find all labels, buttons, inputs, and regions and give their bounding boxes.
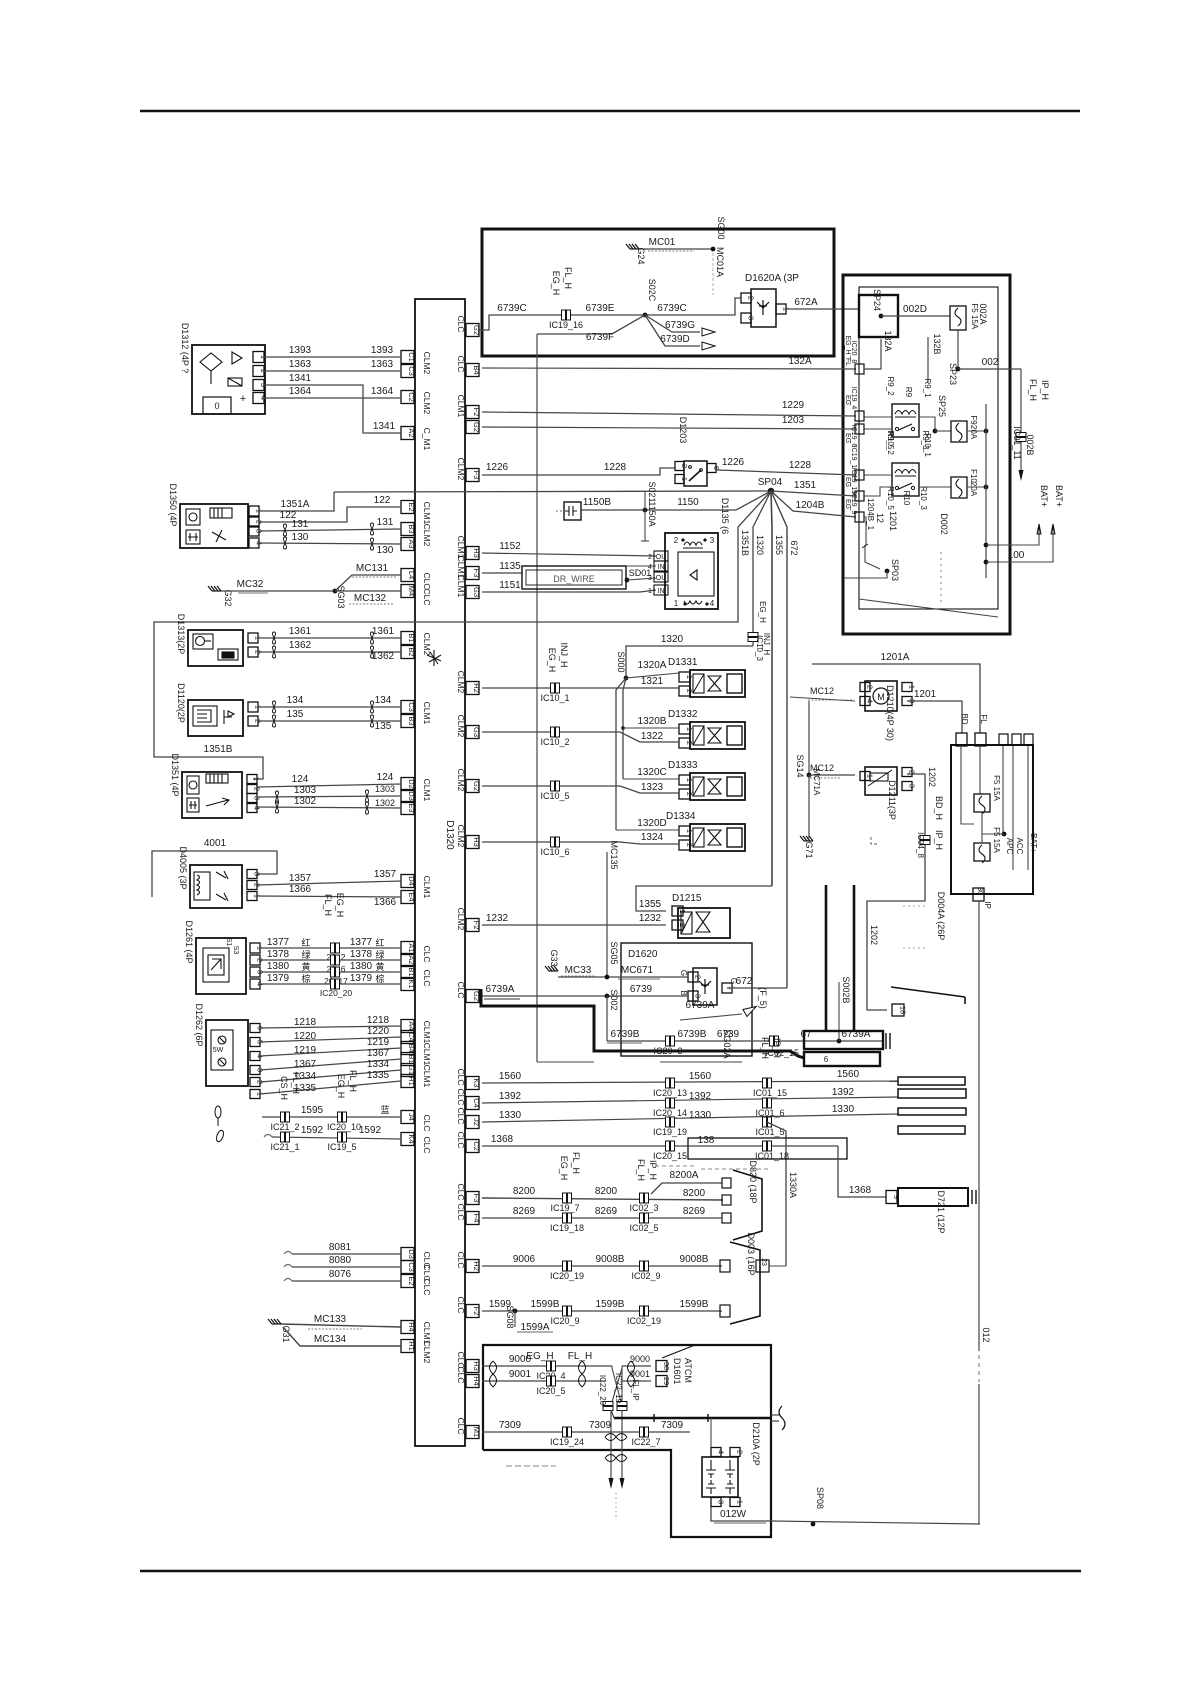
svg-text:C1: C1	[407, 352, 416, 362]
svg-text:B1: B1	[407, 967, 416, 976]
fuse F9 20A	[951, 421, 967, 442]
svg-text:1202: 1202	[927, 767, 937, 787]
vertical S002B	[838, 982, 840, 1041]
svg-text:1: 1	[866, 774, 875, 778]
svg-text:INJ_H: INJ_H	[762, 633, 771, 655]
wire 1363	[264, 370, 401, 372]
bus pin C4 (right) y=1103	[466, 1097, 479, 1110]
svg-text:CLM2: CLM2	[422, 1341, 432, 1364]
svg-text:6739G: 6739G	[665, 320, 695, 331]
bus pin A3 (left) y=544	[401, 538, 414, 551]
svg-text:MC33: MC33	[565, 965, 592, 976]
svg-text:1393: 1393	[371, 345, 394, 356]
fuse box top tabs	[999, 734, 1008, 745]
pins BD FL on lower fuse box	[956, 733, 967, 746]
svg-text:D1120(2P: D1120(2P	[176, 683, 186, 723]
svg-text:IC19_1: IC19_1	[850, 446, 857, 469]
svg-text:FL_H: FL_H	[571, 1152, 581, 1174]
thick screen wire from G2	[481, 989, 804, 1058]
bus pin C1 (left) y=357	[401, 351, 414, 364]
svg-text:MC01A: MC01A	[715, 247, 725, 277]
svg-text:1152: 1152	[499, 541, 521, 552]
bus pin F3 (right) y=1198	[466, 1192, 479, 1205]
svg-text:20A: 20A	[969, 482, 978, 497]
svg-text:G33: G33	[549, 949, 559, 966]
D004A bracket slant	[891, 987, 965, 997]
svg-text:8081: 8081	[329, 1242, 352, 1253]
svg-text:IC19_24: IC19_24	[550, 1437, 584, 1447]
fuse F5 15A	[950, 306, 966, 330]
node S021	[643, 508, 648, 513]
wire 1150 to SP04	[581, 509, 736, 511]
svg-text:IC20_20: IC20_20	[320, 988, 352, 998]
svg-text:B3: B3	[407, 524, 416, 533]
stub to transformer IN pin	[626, 565, 656, 567]
svg-text:8269: 8269	[683, 1206, 706, 1217]
svg-text:1392: 1392	[499, 1091, 522, 1102]
svg-text:3: 3	[253, 872, 262, 876]
wire MC131	[335, 575, 401, 591]
node SG14 / ground G71	[808, 701, 810, 775]
wire 1392	[482, 1097, 898, 1103]
bus pin H3 (right) y=842	[466, 836, 479, 849]
svg-text:6739: 6739	[630, 984, 653, 995]
svg-text:FL_H: FL_H	[323, 894, 333, 916]
svg-text:F3: F3	[472, 569, 481, 578]
bus pin E3 (left) y=808	[401, 802, 414, 815]
svg-text:CLC: CLC	[422, 1114, 432, 1131]
svg-text:29: 29	[662, 1377, 671, 1385]
svg-text:C4: C4	[407, 1032, 416, 1042]
svg-text:2: 2	[866, 685, 875, 689]
svg-text:1204B: 1204B	[796, 500, 825, 511]
svg-text:8200: 8200	[595, 1186, 618, 1197]
svg-text:CLM1: CLM1	[422, 1065, 432, 1088]
wire 8080	[284, 1265, 292, 1268]
wire 1202 route	[867, 774, 925, 1010]
svg-text:EG: EG	[844, 499, 851, 509]
svg-text:1599A: 1599A	[521, 1322, 550, 1333]
svg-text:R9_2: R9_2	[886, 376, 895, 396]
bus pin A2 (left) y=960	[401, 954, 414, 967]
svg-text:1220: 1220	[294, 1031, 317, 1042]
bus pin C3 (left) y=371	[401, 365, 414, 378]
svg-text:MC671: MC671	[621, 965, 654, 976]
svg-text:D1620: D1620	[628, 949, 658, 960]
svg-text:1393: 1393	[289, 345, 312, 356]
svg-text:G2: G2	[472, 422, 481, 432]
svg-text:SP25: SP25	[937, 395, 947, 417]
svg-text:8080: 8080	[329, 1255, 352, 1266]
bus pin G2 (right) y=330	[466, 324, 479, 337]
svg-text:124: 124	[377, 772, 394, 783]
svg-text:IC22_19: IC22_19	[614, 1373, 623, 1404]
svg-text:黄: 黄	[375, 961, 384, 972]
module box D1620	[621, 943, 752, 1056]
svg-text:D4: D4	[407, 876, 416, 886]
connector bracket D820 (18P)	[733, 1170, 762, 1240]
inner wiring to fuse F5	[961, 746, 974, 824]
svg-text:IP: IP	[983, 901, 992, 909]
svg-text:7309: 7309	[499, 1420, 522, 1431]
svg-text:E4: E4	[407, 892, 416, 901]
svg-text:6739B: 6739B	[678, 1029, 707, 1040]
bus pin F3 (right) y=573	[466, 567, 479, 580]
svg-text:6739D: 6739D	[660, 334, 689, 345]
svg-text:IC20_8: IC20_8	[850, 341, 857, 364]
svg-text:IC01_18: IC01_18	[755, 1151, 789, 1161]
svg-text:MC135: MC135	[609, 840, 619, 869]
svg-text:EG_H: EG_H	[758, 601, 767, 623]
svg-text:CLM2: CLM2	[456, 458, 466, 481]
relay box inner	[859, 287, 998, 609]
bus pin D4 (left) y=881	[401, 875, 414, 888]
svg-text:MC01: MC01	[649, 237, 676, 248]
fuse F10 20A	[951, 477, 967, 498]
svg-text:3: 3	[717, 1500, 726, 1504]
bus pin D3 (left) y=796	[401, 790, 414, 803]
svg-text:B1: B1	[407, 1054, 416, 1063]
relay R9 wiring / SP25	[864, 416, 892, 418]
wire 1355 into D1215	[636, 886, 772, 911]
svg-text:F5 15A: F5 15A	[992, 827, 1001, 853]
bus pin J4 (left) y=1117	[401, 1111, 414, 1124]
svg-text:1150B: 1150B	[583, 497, 612, 508]
ground G31 MC133/MC134	[268, 1319, 281, 1324]
svg-text:D002: D002	[939, 513, 949, 535]
svg-text:H3: H3	[472, 837, 481, 847]
svg-text:IC19_19: IC19_19	[653, 1127, 687, 1137]
svg-text:IC19_7: IC19_7	[550, 1203, 579, 1213]
svg-text:1: 1	[736, 1500, 745, 1504]
svg-text:EG_H: EG_H	[547, 648, 557, 673]
svg-text:1303: 1303	[294, 785, 317, 796]
svg-text:FL_H: FL_H	[348, 1070, 358, 1092]
svg-text:CLC: CLC	[456, 1131, 466, 1148]
relay R10	[892, 463, 919, 496]
svg-text:R10_2: R10_2	[886, 431, 895, 455]
svg-text:EG_H: EG_H	[335, 893, 345, 918]
svg-text:CLC: CLC	[456, 1203, 466, 1220]
svg-text:IC19_15: IC19_15	[850, 468, 857, 495]
svg-text:D1203: D1203	[678, 417, 688, 444]
svg-text:FL_H: FL_H	[1028, 379, 1038, 401]
svg-text:30: 30	[976, 887, 983, 895]
svg-text:CLM2: CLM2	[456, 715, 466, 738]
svg-text:1320C: 1320C	[637, 767, 666, 778]
svg-text:FL_H: FL_H	[291, 1072, 301, 1094]
wire 1201	[907, 701, 962, 733]
svg-text:D1262 (6P: D1262 (6P	[194, 1003, 204, 1046]
svg-text:8200: 8200	[513, 1186, 536, 1197]
svg-text:CLC: CLC	[422, 1278, 432, 1295]
svg-text:1378: 1378	[350, 949, 373, 960]
svg-text:G32: G32	[223, 589, 233, 606]
svg-text:H4: H4	[407, 1322, 416, 1332]
svg-text:E3: E3	[407, 803, 416, 812]
svg-text:1204B_1: 1204B_1	[866, 498, 875, 531]
svg-text:K1: K1	[407, 979, 416, 988]
svg-text:1229: 1229	[782, 400, 805, 411]
wire 1321	[482, 687, 679, 689]
svg-text:G3: G3	[472, 587, 481, 597]
bus pin K1 (left) y=984	[401, 978, 414, 991]
wire 6739F to long vertical	[537, 315, 645, 334]
svg-text:CLM1: CLM1	[422, 876, 432, 899]
svg-text:1599B: 1599B	[531, 1299, 560, 1310]
svg-text:A2: A2	[407, 428, 416, 437]
svg-text:CLM2: CLM2	[422, 633, 432, 656]
svg-text:CLM1: CLM1	[422, 1021, 432, 1044]
pin 23 of D003	[756, 1260, 769, 1272]
svg-text:D1313(2P: D1313(2P	[176, 614, 186, 655]
svg-text:D1601: D1601	[672, 1358, 682, 1385]
bus pin K3 (right) y=1083	[466, 1077, 479, 1090]
svg-text:672: 672	[789, 540, 799, 555]
svg-text:3: 3	[648, 575, 652, 582]
svg-text:2: 2	[253, 787, 262, 791]
bus pin K4 (left) y=1139	[401, 1133, 414, 1146]
svg-text:D1210(4P 30): D1210(4P 30)	[885, 685, 895, 741]
svg-text:IC10_6: IC10_6	[540, 847, 569, 857]
svg-text:C3: C3	[407, 1262, 416, 1272]
svg-text:BD_H: BD_H	[934, 796, 944, 820]
svg-text:C2: C2	[407, 392, 416, 402]
svg-text:C4: C4	[472, 1098, 481, 1108]
svg-text:1324: 1324	[641, 832, 664, 843]
svg-text:131: 131	[292, 519, 309, 530]
BAT+ terminals	[1037, 524, 1041, 534]
svg-text:1378: 1378	[267, 949, 290, 960]
svg-text:18: 18	[899, 1006, 908, 1014]
svg-text:S1: S1	[225, 938, 232, 947]
svg-text:6739A: 6739A	[486, 984, 515, 995]
wire 1355 vertical from SP04	[771, 491, 772, 886]
svg-text:FL_H: FL_H	[563, 267, 573, 289]
svg-text:672: 672	[736, 976, 753, 987]
svg-text:1232: 1232	[639, 913, 662, 924]
wire 002D	[881, 315, 950, 317]
svg-text:3: 3	[747, 316, 756, 320]
wire 1320A	[626, 673, 679, 678]
svg-text:1560: 1560	[689, 1071, 712, 1082]
svg-text:CLM1: CLM1	[456, 575, 466, 598]
svg-text:S3: S3	[232, 946, 239, 955]
svg-text:1330: 1330	[499, 1110, 522, 1121]
svg-text:R10: R10	[902, 491, 911, 506]
wire 1151	[482, 591, 640, 593]
svg-text:4: 4	[866, 699, 875, 703]
bottom pin 30 / IP	[973, 888, 984, 901]
svg-text:132B: 132B	[932, 333, 942, 354]
bus pin G2 (right) y=996	[466, 990, 479, 1003]
svg-text:D3: D3	[407, 791, 416, 801]
svg-text:CLM2: CLM2	[422, 524, 432, 547]
svg-text:D1331: D1331	[668, 657, 698, 668]
svg-text:0: 0	[214, 401, 219, 411]
svg-text:1228: 1228	[789, 460, 812, 471]
svg-text:D1135 (6: D1135 (6	[720, 498, 730, 534]
svg-text:BAT+: BAT+	[1039, 485, 1049, 507]
svg-text:002: 002	[982, 357, 999, 368]
svg-text:1: 1	[674, 599, 679, 608]
svg-text:SP23: SP23	[948, 363, 958, 385]
svg-text:CLM2: CLM2	[422, 392, 432, 415]
svg-text:002B: 002B	[1025, 434, 1035, 455]
svg-text:1362: 1362	[372, 651, 395, 662]
svg-text:9001: 9001	[509, 1369, 532, 1380]
wire 1135 and shielded DR_WIRE	[482, 572, 522, 574]
svg-text:002D: 002D	[903, 304, 927, 315]
svg-text:CLM1: CLM1	[422, 779, 432, 802]
svg-text:绿: 绿	[301, 949, 310, 960]
wire 1330	[482, 1114, 898, 1122]
svg-text:IC19_9: IC19_9	[850, 492, 857, 515]
svg-text:IC21_1: IC21_1	[270, 1142, 299, 1152]
svg-text:1364: 1364	[289, 386, 312, 397]
svg-text:1361: 1361	[289, 626, 312, 637]
svg-text:1368: 1368	[491, 1134, 514, 1145]
wire 1323	[482, 786, 679, 793]
wire 1351A	[259, 492, 334, 511]
relay R9	[892, 404, 919, 437]
svg-text:134: 134	[287, 695, 304, 706]
svg-text:A1: A1	[407, 943, 416, 952]
svg-text:130: 130	[377, 545, 394, 556]
svg-text:OU: OU	[656, 575, 667, 582]
svg-text:1363: 1363	[371, 359, 394, 370]
svg-text:BAT+: BAT+	[1054, 485, 1064, 507]
svg-text:IC20_19: IC20_19	[550, 1271, 584, 1281]
thick wire inside box	[614, 1417, 771, 1419]
wire 1330A branch	[767, 1122, 786, 1266]
wire 1592	[264, 1135, 272, 1138]
svg-text:1302: 1302	[294, 796, 317, 807]
svg-text:SP03: SP03	[890, 559, 900, 581]
svg-text:CLC: CLC	[422, 1136, 432, 1153]
svg-text:D4005 (3P: D4005 (3P	[178, 846, 188, 889]
svg-text:F5 15A: F5 15A	[992, 775, 1001, 801]
svg-text:S002: S002	[609, 989, 619, 1010]
svg-text:8200: 8200	[683, 1188, 706, 1199]
svg-text:SG08: SG08	[505, 1305, 515, 1328]
bus pin H2 (right) y=688	[466, 682, 479, 695]
svg-text:1: 1	[648, 588, 652, 595]
svg-text:EG: EG	[844, 433, 851, 443]
wire 7309	[482, 1431, 690, 1433]
capacitor 1150B	[564, 502, 581, 520]
svg-text:MC131: MC131	[356, 563, 389, 574]
svg-text:1341: 1341	[373, 421, 396, 432]
svg-text:IC19_16: IC19_16	[549, 320, 583, 330]
svg-text:J2: J2	[472, 1118, 481, 1126]
svg-text:1201A: 1201A	[881, 652, 910, 663]
long vertical wire from 6739F	[536, 334, 538, 1062]
svg-text:IC20_13: IC20_13	[653, 1088, 687, 1098]
wire 131	[259, 529, 401, 531]
svg-text:1322: 1322	[641, 731, 664, 742]
svg-text:CLM2: CLM2	[456, 825, 466, 848]
svg-text:D1320: D1320	[444, 820, 455, 850]
svg-text:9006: 9006	[513, 1254, 536, 1265]
svg-text:1368: 1368	[849, 1185, 872, 1196]
svg-text:7309: 7309	[661, 1420, 684, 1431]
svg-text:1334: 1334	[367, 1059, 390, 1070]
wire 8076	[284, 1279, 292, 1282]
svg-text:6: 6	[824, 1055, 829, 1064]
fuse F5 15A (2)	[974, 843, 990, 861]
bus pin B4 (left) y=1048	[401, 1042, 414, 1055]
svg-text:IC20_5: IC20_5	[536, 1386, 565, 1396]
wire 1351B long route from SP04 to D1351	[154, 491, 771, 779]
svg-text:IC20_3: IC20_3	[653, 1046, 682, 1056]
svg-text:FL_H: FL_H	[568, 1351, 592, 1362]
svg-text:FL: FL	[979, 714, 988, 724]
svg-text:134: 134	[375, 695, 392, 706]
svg-text:EG_H: EG_H	[336, 1074, 346, 1099]
thermistor D1211 (3P)	[865, 767, 897, 795]
bus pin E2 (left) y=1281	[401, 1275, 414, 1288]
svg-text:9001: 9001	[630, 1369, 650, 1379]
svg-text:S002B: S002B	[841, 976, 851, 1003]
svg-text:1560: 1560	[499, 1071, 522, 1082]
svg-text:3: 3	[710, 536, 715, 545]
wire 6739B	[606, 996, 608, 1041]
svg-text:B2: B2	[407, 647, 416, 656]
wire 6739 row / node S002	[482, 995, 688, 997]
transformer pin blocks OUT/IN	[654, 551, 668, 561]
wire 1334	[260, 1070, 401, 1082]
svg-text:IP_H: IP_H	[648, 1160, 658, 1180]
svg-text:IC21_2: IC21_2	[270, 1122, 299, 1132]
screen verticals to bar	[825, 885, 828, 1031]
svg-text:4001: 4001	[204, 838, 227, 849]
svg-text:MC32: MC32	[237, 579, 264, 590]
bus pin F3 (right) y=475	[466, 469, 479, 482]
bus pin F2 (right) y=925	[466, 919, 479, 932]
wire 8269	[482, 1217, 722, 1219]
svg-text:IC19_6: IC19_6	[850, 425, 857, 448]
svg-text:1367: 1367	[367, 1048, 390, 1059]
svg-text:H3: H3	[472, 1361, 481, 1371]
wire 672A	[786, 308, 859, 310]
wire 1393	[264, 356, 401, 358]
bus pin B3 (left) y=529	[401, 523, 414, 536]
svg-text:124: 124	[292, 774, 309, 785]
svg-text:D1350 (4P: D1350 (4P	[168, 483, 178, 526]
ECU connector bus D1320	[415, 299, 465, 1446]
svg-text:1321: 1321	[641, 676, 664, 687]
svg-text:1202: 1202	[869, 925, 879, 945]
svg-text:1392: 1392	[832, 1087, 855, 1098]
svg-text:1151: 1151	[499, 580, 521, 591]
wire 1377	[260, 947, 401, 949]
svg-text:IC19_5: IC19_5	[327, 1142, 356, 1152]
svg-text:IC02_3: IC02_3	[629, 1203, 658, 1213]
svg-text:1219: 1219	[367, 1037, 390, 1048]
svg-text:1362: 1362	[289, 640, 312, 651]
shield pigtail symbols	[215, 1106, 225, 1143]
bus pin H2 (right) y=1266	[466, 1260, 479, 1273]
svg-text:MC12: MC12	[810, 686, 834, 696]
bus pin G1 (left) y=1070	[401, 1064, 414, 1077]
bracket 4001	[152, 851, 277, 897]
svg-text:1377: 1377	[350, 937, 373, 948]
svg-text:CLM1: CLM1	[456, 395, 466, 418]
svg-text:E2: E2	[407, 502, 416, 511]
svg-text:SG05: SG05	[609, 941, 619, 964]
svg-text:IC04_8: IC04_8	[916, 832, 925, 858]
